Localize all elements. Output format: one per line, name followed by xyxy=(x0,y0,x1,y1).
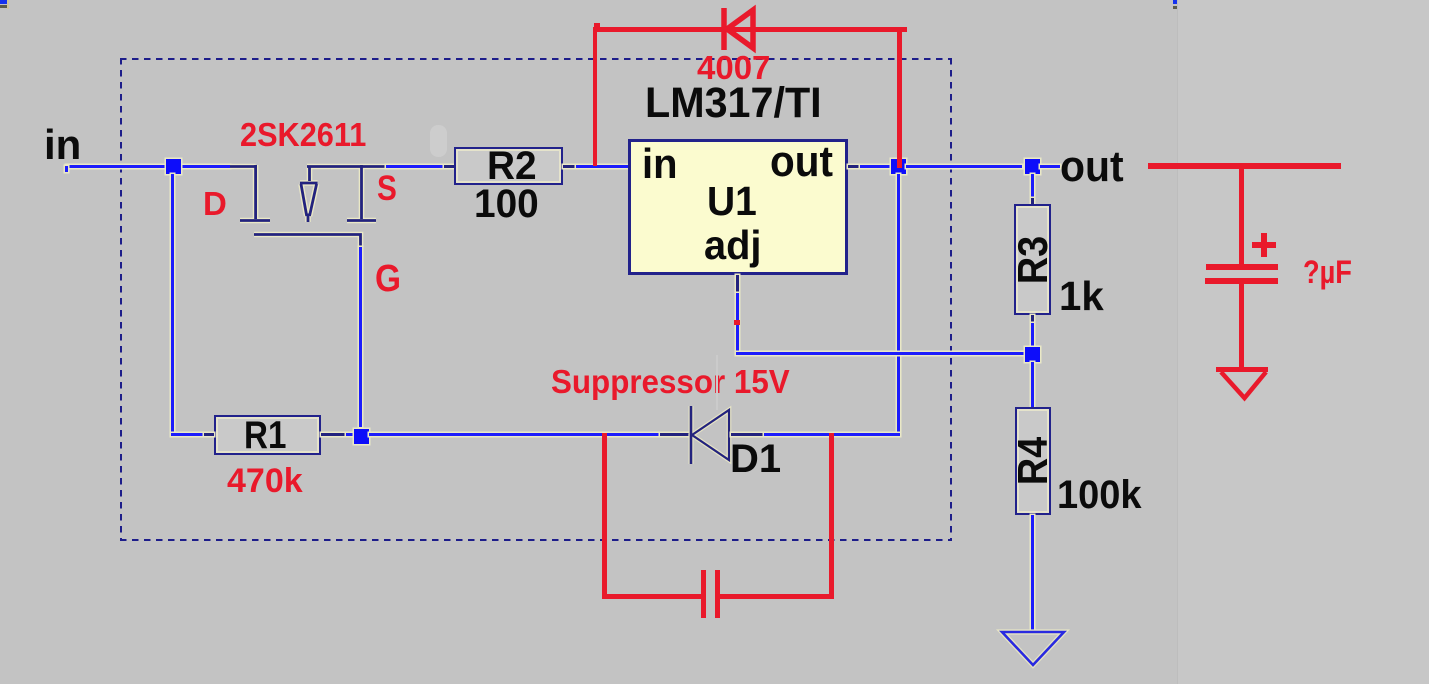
wire in horizontal xyxy=(66,165,230,168)
ground red xyxy=(1215,366,1271,402)
wire R4 to ground xyxy=(1031,515,1034,633)
diode 4007 label xyxy=(697,51,770,84)
wire R1 to J5 xyxy=(346,433,354,436)
wire to R2 xyxy=(386,165,444,168)
transistor Q1 label G xyxy=(375,260,401,298)
red cap loop bottom left xyxy=(602,594,702,599)
transistor Q1 label D xyxy=(203,187,227,220)
window edge line xyxy=(1178,0,1429,684)
resistor R2 lead left xyxy=(444,165,454,168)
resistor R2 value 100 xyxy=(474,184,539,224)
resistor R3 xyxy=(1014,204,1051,315)
wire adj down xyxy=(736,293,739,353)
resistor R1 xyxy=(214,415,321,455)
red cap loop right vertical xyxy=(829,433,834,599)
red tick on adj wire xyxy=(734,320,740,325)
transistor Q1 symbol xyxy=(228,160,392,252)
op-amp U1 pin label adj xyxy=(704,225,761,266)
op-amp U1 label LM317/TI xyxy=(645,82,822,125)
red wire right vertical xyxy=(897,32,902,168)
resistor R1 lead left xyxy=(204,433,214,436)
wire J1 down to R1 corner xyxy=(171,174,174,436)
capacitor C2 right plate xyxy=(715,570,720,618)
transistor Q1 gate line xyxy=(252,228,366,250)
wire J2 down vertical xyxy=(897,174,900,436)
red wire left vertical xyxy=(593,32,597,166)
capacitor C1 bottom lead xyxy=(1239,284,1244,368)
wire end tick xyxy=(65,166,68,172)
wire out to J2 xyxy=(860,165,891,168)
wire out stub xyxy=(1040,165,1060,168)
capacitor C1 value xyxy=(1303,256,1352,288)
capacitor C1 top plate xyxy=(1206,264,1278,270)
op-amp U1 adj pin lead xyxy=(736,275,739,293)
transistor Q1 label S xyxy=(377,171,397,206)
dashed boundary box top xyxy=(120,58,951,60)
resistor R4 xyxy=(1015,407,1051,515)
op-amp U1 pin label in xyxy=(642,143,677,185)
wire R2 to U1 xyxy=(576,165,628,168)
node J4 junction xyxy=(1025,347,1040,362)
dashed boundary box bottom xyxy=(120,539,951,541)
diode D1 lead right xyxy=(731,433,764,436)
light smudge artifact xyxy=(430,125,447,157)
red wire top-left nub xyxy=(594,23,600,27)
wire J4 to R4 xyxy=(1031,362,1034,407)
wire J5 to D1 xyxy=(369,433,660,436)
resistor R3 lead top xyxy=(1031,198,1034,204)
diode 4007 symbol xyxy=(718,4,758,54)
wire J2 to J3 xyxy=(906,165,1022,168)
node J3 junction xyxy=(1025,159,1040,174)
dashed boundary box right xyxy=(950,58,952,541)
wire D1 to corner xyxy=(764,433,900,436)
diode 4007 red wire top horizontal xyxy=(593,27,907,32)
resistor R2 lead right xyxy=(563,165,576,168)
light line artifact xyxy=(716,355,718,410)
wire R3 to J4 xyxy=(1031,323,1034,347)
node out label xyxy=(1060,145,1124,189)
wire J3 down to R3 xyxy=(1031,174,1034,198)
op-amp U1 box xyxy=(628,139,848,275)
resistor R3 lead bottom xyxy=(1031,315,1034,323)
resistor R4 value 100k xyxy=(1057,475,1142,515)
red cap loop left vertical xyxy=(602,433,607,599)
diode D1 label xyxy=(730,439,781,479)
resistor R2 xyxy=(454,147,563,185)
wire corner to R1 xyxy=(171,433,204,436)
red output wire horizontal xyxy=(1148,163,1341,169)
node J2 junction xyxy=(891,159,906,174)
resistor R1 lead right xyxy=(321,433,346,436)
resistor R3 value 1k xyxy=(1059,276,1104,317)
window artifact top-left xyxy=(0,0,7,4)
node J5 junction xyxy=(354,429,369,444)
wire U1 out lead xyxy=(848,165,860,168)
resistor R1 value 470k xyxy=(227,464,303,498)
op-amp U1 label xyxy=(707,181,757,222)
diode D1 lead left xyxy=(660,433,691,436)
window artifact top-right xyxy=(1173,0,1179,4)
dashed boundary box left xyxy=(120,58,122,541)
node in label xyxy=(44,124,81,166)
op-amp U1 pin label out xyxy=(770,140,833,184)
node J1 junction xyxy=(166,159,181,174)
diode D1 symbol xyxy=(688,404,734,466)
suppressor label xyxy=(551,365,790,398)
capacitor C1 plus sign xyxy=(1252,242,1276,248)
red cap loop bottom right xyxy=(719,594,834,599)
transistor Q1 label 2SK2611 xyxy=(240,118,366,151)
wire gate down to J5 xyxy=(359,247,362,427)
ground blue xyxy=(999,629,1067,669)
capacitor C1 bottom plate xyxy=(1205,278,1278,284)
capacitor C1 top lead xyxy=(1239,169,1244,265)
capacitor C2 left plate xyxy=(701,570,706,618)
wire adj horizontal to J4 xyxy=(736,352,1028,355)
